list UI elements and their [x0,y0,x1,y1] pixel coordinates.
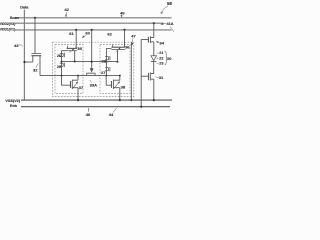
label 43 for data line [14,43,19,48]
wire W1 cross-coupling [62,61,118,63]
junction VDD1 to box61 [75,29,77,31]
junction T37 to VSS [77,99,79,101]
svg-text:28: 28 [101,59,106,64]
label 38 [121,85,126,90]
box 61 dashed [55,45,83,94]
svg-text:VDD2(V3): VDD2(V3) [0,22,15,26]
svg-text:58: 58 [167,1,172,6]
capacitor contact 33A symbol [90,68,94,72]
label 41A with arrow to VDD2 rail end [167,22,174,26]
node Enb rail [21,106,170,108]
junction VDD2 to T34 [153,22,155,24]
transistor T38 [106,76,111,86]
svg-text:VDD1(V1): VDD1(V1) [0,28,15,32]
wire chain box61 left [61,51,63,76]
node VDD2 rail [15,22,164,24]
node Data label [20,6,29,10]
svg-text:32: 32 [33,67,38,72]
junction T38 to VSS [119,99,121,101]
label 46 with leader to Enb [86,112,91,117]
svg-text:49: 49 [120,11,125,16]
svg-text:46: 46 [86,112,91,117]
wire chain box62 left [105,62,107,76]
svg-text:44: 44 [109,112,114,117]
transistor T34 [147,37,149,43]
svg-text:43: 43 [14,43,19,48]
svg-text:34: 34 [159,41,164,46]
transistor small 26 [60,53,65,57]
label 31 with leader [159,75,164,80]
svg-text:61: 61 [69,31,74,36]
wire data line vertical [23,10,25,101]
svg-text:38: 38 [121,85,126,90]
junction T31 to VSS [153,99,155,101]
label 34 with leader [159,41,164,46]
svg-text:42: 42 [64,7,69,12]
box 60 outer dashed [53,42,134,96]
wire W2 storage node [40,75,120,77]
box 62 dashed [100,45,130,94]
transistor T36 [112,45,114,47]
label 33A with leader [90,82,97,87]
transistor small 25 [60,63,65,67]
svg-text:Data: Data [20,6,29,10]
svg-text:21: 21 [159,51,163,55]
svg-text:37: 37 [79,85,84,90]
svg-text:VSS(V2): VSS(V2) [5,99,21,103]
svg-text:33A: 33A [90,82,97,87]
wire scan branch down to T32 [34,18,36,54]
svg-text:62: 62 [107,31,112,36]
svg-text:47: 47 [131,33,136,38]
svg-text:22: 22 [159,56,163,60]
OLED diode 22 [151,56,157,61]
wire VDD1 down to T36 [124,30,126,48]
label 58 with curved arrow [167,1,172,6]
transistor T37 [62,76,71,86]
junction VDD1 to 33A line [91,29,93,31]
svg-text:27: 27 [101,70,106,75]
leader diagonal at VDD1 right end [170,27,174,32]
transistor small 27 [105,67,110,71]
node Scan rail [15,17,172,19]
label 49 with arrow to scan line [120,11,125,16]
junction VDD1 to T36 [123,29,125,31]
transistor T32 [32,52,41,54]
junction data/T32 [23,61,25,63]
node VDD1 rail [15,29,172,31]
transistor small 28 [105,56,110,60]
transistor T35 [68,46,77,49]
svg-text:20: 20 [167,57,171,61]
svg-text:Scan: Scan [10,16,20,20]
label 62 [107,31,112,36]
wire VDD1 down to T35 [75,30,77,49]
wire 47 Enb vertical [140,40,142,107]
svg-text:31: 31 [159,75,164,80]
wire T36 gate L from W1 [106,49,111,62]
svg-text:60: 60 [85,30,90,35]
label 32 [33,67,38,72]
brace 20 [165,51,168,65]
wire VDD1 down to 33A symbol [91,30,93,69]
svg-text:41A: 41A [167,22,174,26]
label 36 with leader [125,44,130,49]
label 60 with arrow [85,30,90,35]
junction scan to T32 gate [34,17,36,19]
label 37 [79,85,84,90]
label 35 with leader [77,46,82,51]
transistor T31 [148,73,150,80]
svg-text:Enb: Enb [10,104,18,108]
label 42 with arrow to scan line [64,7,69,12]
label 47 with arrow [131,33,136,38]
label 44 with leader to Enb [109,112,114,117]
wire VDD2 down to T34 [153,23,155,37]
wire 47 output vertical [130,42,132,100]
label 61 [69,31,74,36]
svg-text:36: 36 [125,44,130,49]
node VSS rail [21,99,172,101]
svg-text:23: 23 [159,61,163,65]
svg-text:26: 26 [57,54,61,58]
labels 21 22 23 [159,51,163,55]
wire data to T32 source [24,61,33,63]
svg-text:25: 25 [57,65,61,69]
